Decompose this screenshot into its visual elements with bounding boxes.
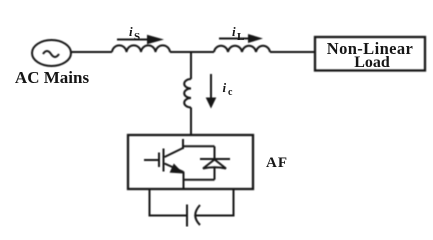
- transistor Q1 emitter diagonal: [165, 164, 184, 173]
- wire box to capacitor right: [233, 189, 235, 217]
- wire bottom right lead: [196, 215, 235, 217]
- transistor Q1 gate lead: [144, 159, 159, 161]
- transistor Q1 collector diagonal: [165, 148, 184, 157]
- transistor Q1 emitter lead: [183, 172, 185, 189]
- load box (Non-Linear Load): [315, 37, 425, 71]
- diode D1 triangle: [203, 160, 226, 169]
- svg-text:c: c: [228, 87, 233, 98]
- transistor Q1 gate bar left: [158, 153, 160, 168]
- AC source V1: [32, 40, 71, 66]
- diode D1 cathode bar: [200, 158, 230, 160]
- diode D1 cathode lead: [214, 146, 216, 159]
- wire source to inductor Ls: [71, 51, 112, 53]
- capacitor C1 flat plate: [186, 205, 188, 227]
- svg-text:i: i: [232, 24, 236, 39]
- diode D1 anode lead: [214, 168, 216, 180]
- arrow iL: [219, 34, 263, 43]
- wire box to capacitor left: [149, 189, 151, 217]
- svg-text:i: i: [129, 24, 133, 39]
- transistor Q1 collector lead: [182, 139, 184, 149]
- converter box U1 (AF): [128, 135, 253, 189]
- arrow iC: [206, 74, 217, 109]
- svg-text:Load: Load: [354, 54, 390, 71]
- svg-text:i: i: [223, 80, 227, 95]
- svg-text:L: L: [237, 31, 244, 43]
- transistor Q1 gate bar right: [163, 149, 165, 172]
- inductor Ls (source inductor): [112, 45, 170, 52]
- transistor Q1 emitter arrow: [170, 164, 184, 174]
- wire collector rail: [183, 145, 215, 147]
- inductor Lc (filter coupling inductor, vertical): [184, 79, 191, 108]
- arrow iS: [117, 35, 164, 44]
- wire inductor Ls to junction to inductor LL: [170, 51, 214, 53]
- capacitor C1 curved plate: [195, 205, 200, 225]
- wire bottom left lead: [149, 215, 188, 217]
- node junction: [190, 52, 192, 79]
- wire inductor LL to load box: [270, 51, 315, 53]
- svg-text:S: S: [134, 31, 140, 43]
- wire Lc to AF box: [190, 108, 192, 137]
- inductor LL (load inductor): [214, 46, 270, 52]
- svg-text:AF: AF: [266, 155, 288, 171]
- svg-text:AC Mains: AC Mains: [15, 68, 90, 87]
- wire emitter rail: [184, 179, 215, 181]
- AC source sine symbol: [43, 51, 59, 57]
